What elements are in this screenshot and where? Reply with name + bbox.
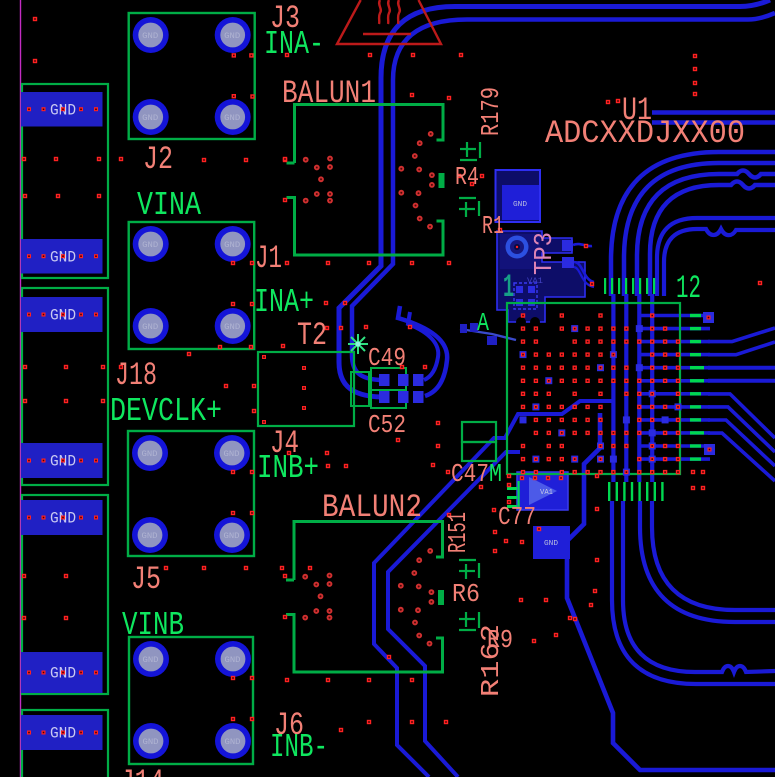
svg-text:INB+: INB+ [257,450,319,487]
svg-text:VINB: VINB [122,607,184,644]
svg-text:GND: GND [544,540,558,548]
svg-text:C52: C52 [368,410,406,440]
wire vertical through U1 x=613.4 [611,294,615,482]
capacitor C49/C52 footprint [371,368,406,390]
connector J2/VINA GND pad 3 [133,308,169,344]
svg-text:TP3: TP3 [529,232,559,275]
svg-text:J14: J14 [120,764,164,777]
test point TP3 pad [506,236,529,259]
wire row escape 4 [640,353,710,357]
pad right of U1 at 704,444 [704,444,715,455]
svg-text:GND: GND [224,450,240,459]
wire pair through BALUN2 to bottom [374,401,613,777]
wire row escape 7 [640,392,710,396]
wire arc pair mid right [657,218,775,296]
svg-text:GND: GND [224,323,240,332]
pad right of U1 at 703,312 [703,312,714,323]
svg-text:GND: GND [142,450,158,459]
svg-text:C47: C47 [451,459,489,489]
wire fan up 1 [708,328,775,342]
capacitor C-GND near R4 [496,170,541,222]
connector J3 GND pad 2 [215,17,251,53]
GND pad bar 5 [21,500,103,535]
BALUN2 via cluster right [398,548,434,646]
C49/C52 pad at 413,374 [413,374,424,386]
connector J2/VINA outline [129,222,255,349]
board outline (left edge) [20,0,22,777]
svg-text:R151: R151 [443,512,473,553]
svg-text:BALUN2: BALUN2 [322,489,422,526]
connector J5/VINB GND pad 1 [133,641,169,677]
wire from TP3 pour [573,244,592,246]
svg-text:J2: J2 [143,141,173,178]
svg-text:GND: GND [142,114,158,123]
wire row escape 9 [640,418,710,422]
connector J3 outline [129,13,255,139]
capacitor C77 [517,472,568,510]
connector J4 GND pad 4 [214,517,250,553]
U1 pin stubs right [690,314,704,461]
svg-text:GND: GND [224,241,240,250]
svg-text:GND: GND [225,738,241,747]
U1 tick marks bottom [608,482,664,501]
C49/C52 pad at 398,374 [398,374,409,386]
connector J4 outline [128,431,254,556]
connector J3 GND pad 1 [133,17,169,53]
svg-text:C49: C49 [368,343,406,373]
wire thick bottom center [567,413,775,770]
pad at 528,299 [528,299,535,306]
svg-text:BALUN1: BALUN1 [282,75,376,112]
svg-text:12: 12 [676,270,701,307]
capacitor symbol near R9 [459,612,479,630]
svg-text:R1: R1 [482,211,504,241]
connector J5/VINB GND pad 3 [133,723,169,759]
svg-text:ADCXXDJXX00: ADCXXDJXX00 [545,115,745,152]
edge connector outline 3 [22,495,108,694]
edge connector outline 1 [22,84,108,278]
U1 BGA via grid [520,313,682,475]
svg-text:GND: GND [143,738,159,747]
wire fan down 3 [708,420,775,466]
connector J3 GND pad 3 [133,99,169,135]
wire row escape 12 [640,457,710,461]
svg-text:GND: GND [142,32,158,41]
BALUN1 via cluster right [398,131,434,230]
BALUN2 pin marker [438,590,444,605]
wire fan down 4 [708,433,775,481]
svg-text:M: M [489,459,502,489]
thermal symbol triangle [337,0,441,44]
svg-text:1: 1 [503,269,514,306]
C49/C52 pad at 413,391 [413,391,424,403]
svg-text:GND: GND [225,656,241,665]
wire row escape 1 [640,314,710,318]
connector J5/VINB GND pad 4 [215,723,251,759]
svg-text:C77: C77 [498,502,536,532]
transformer T2 outline [258,352,354,426]
wire horizontals behind U1 label [652,110,775,115]
C49/C52 pad at 398,391 [398,391,409,403]
connector J3 GND pad 4 [215,99,251,135]
TP3 pour pads [562,240,573,251]
svg-text:GND: GND [224,532,240,541]
capacitor symbol near R4 [460,142,480,160]
svg-text:A: A [477,308,489,338]
wire row escape 8 [640,405,710,409]
svg-text:J18: J18 [115,357,157,394]
svg-text:GND: GND [224,32,240,41]
test point TP3 pour [497,231,585,322]
svg-text:R179: R179 [476,87,506,136]
via star marker [348,334,368,354]
svg-text:GND: GND [142,241,158,250]
connector J2/VINA GND pad 4 [215,308,251,344]
GND pad bar 1 [21,92,103,127]
IC U1 BGA outline [507,303,680,474]
svg-text:R6: R6 [452,579,480,609]
wire row escape 10 [640,431,710,435]
wire fan straight 1 [708,366,775,370]
connector J2/VINA GND pad 1 [133,226,169,262]
GND pad bar 7 [21,715,103,750]
connector J4 GND pad 1 [132,435,168,471]
svg-text:VINA: VINA [137,187,201,224]
svg-text:J1: J1 [255,240,282,277]
wire row escape 3 [640,340,710,344]
wire bundle lower right [640,501,775,622]
GND pad bar 3 [21,297,103,332]
edge connector outline 2 [22,288,108,485]
svg-text:VA1: VA1 [527,277,543,286]
wire fan down 2 [708,407,775,452]
wire arcs right of C49/C52 [398,306,447,396]
wire near node A [460,329,516,340]
wire row escape 2 [640,327,710,331]
svg-text:GND: GND [142,532,158,541]
svg-text:INB-: INB- [270,729,328,766]
wire row escape 11 [640,444,710,448]
BALUN2 via cluster left [302,573,332,621]
BALUN1 outline [287,105,444,256]
svg-text:INA+: INA+ [254,284,314,321]
wire row escape 6 [640,379,710,383]
connector J4 GND pad 2 [214,435,250,471]
svg-text:DEVCLK+: DEVCLK+ [110,393,222,430]
connector J5/VINB GND pad 2 [215,641,251,677]
svg-text:J5: J5 [131,561,161,598]
C49/C52 pad at 379,391 [379,391,390,403]
connector J5/VINB outline [129,637,253,764]
GND pad bar 6 [21,652,103,693]
BALUN2 outline [286,522,443,673]
pad at 516,286 [516,286,523,293]
pad at 528,286 [528,286,535,293]
wire fan up 2 [708,342,775,355]
svg-text:VA1: VA1 [540,489,553,497]
capacitor C47 footprint [462,422,496,442]
BALUN1 pin marker [439,173,445,188]
C49/C52 pad at 379,374 [379,374,390,386]
svg-text:GND: GND [513,201,527,209]
svg-text:T2: T2 [297,317,327,354]
component U? dashed outline near pin A1 [514,283,537,309]
wire fan straight 2 [708,379,775,383]
wire vertical through U1 x=639.3 [637,294,641,482]
svg-text:INA-: INA- [264,26,324,63]
edge connector outline 4 [22,710,108,777]
GND pad bar 4 [21,443,103,478]
U1 pin1 tick marks top [604,278,655,294]
capacitor GND below C77 [533,526,570,559]
wire row escape 5 [640,366,710,370]
T2 side box [351,372,369,406]
pad at 516,299 [516,299,523,306]
GND pad bar 2 [21,239,103,274]
svg-text:R4: R4 [455,162,479,192]
capacitor symbol near R6 [459,560,479,579]
capacitor symbol near R1 [459,198,479,217]
BALUN1 via cluster left [303,156,333,204]
wire vertical through U1 x=652.2 [650,294,654,482]
svg-text:GND: GND [224,114,240,123]
connector J4 GND pad 3 [132,517,168,553]
wire arc bundle upper right [611,152,775,296]
wire fan down 1 [708,394,775,438]
svg-text:R162: R162 [476,624,506,697]
wire vertical through U1 x=626.3 [624,294,628,482]
svg-text:GND: GND [143,656,159,665]
connector J2/VINA GND pad 2 [215,226,251,262]
svg-text:GND: GND [142,323,158,332]
wire pair from top right to BALUN1 (vertical) [339,0,770,397]
